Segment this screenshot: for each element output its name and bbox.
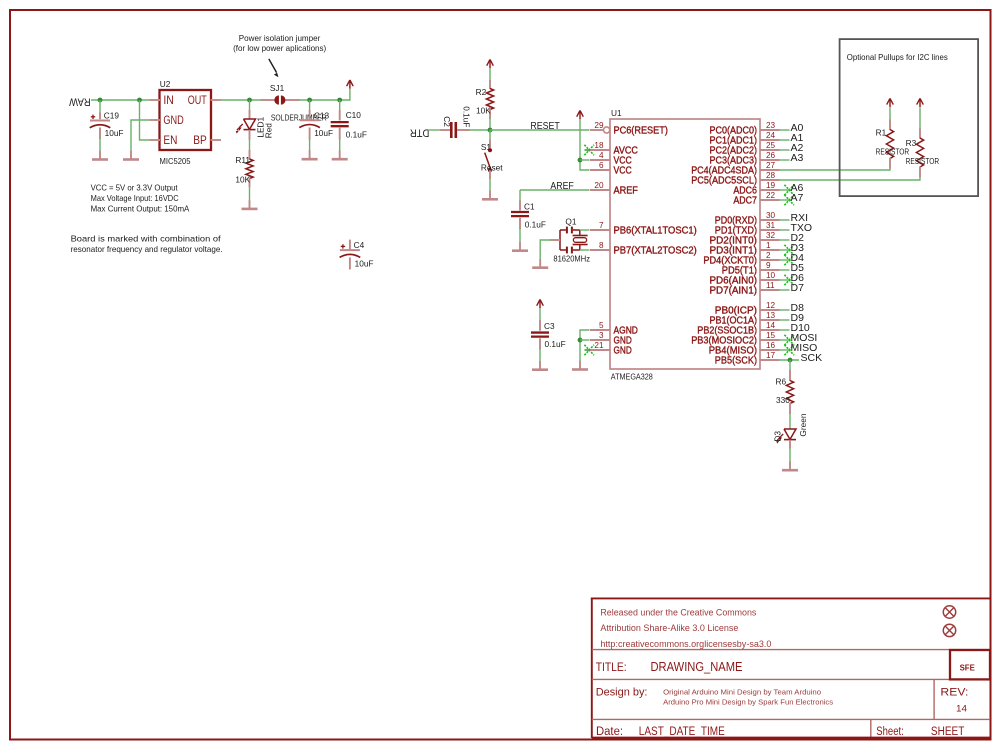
switch S1 bottom contact <box>488 168 492 172</box>
wire Q1 to XTAL2 pin 8 <box>580 249 590 251</box>
U1 right pin 1 PD3(INT1) stub <box>760 249 780 251</box>
resistor R11 zigzag <box>246 159 253 179</box>
svg-text:330: 330 <box>776 395 790 405</box>
resistor R11 top pin <box>249 150 251 160</box>
wire Q1 to XTAL1 pin 7 <box>580 229 590 231</box>
resistor R2 bottom pin <box>489 109 491 119</box>
capacitor C10 plates <box>331 121 349 123</box>
svg-text:29: 29 <box>594 121 604 130</box>
svg-text:81620MHz: 81620MHz <box>553 254 590 264</box>
svg-text:25: 25 <box>766 141 776 150</box>
svg-text:10K: 10K <box>235 175 250 185</box>
U1 pin 29 inversion bubble <box>604 127 610 133</box>
svg-text:R11: R11 <box>235 155 250 165</box>
svg-text:Power isolation jumper: Power isolation jumper <box>239 33 321 43</box>
svg-text:Date:: Date: <box>596 726 623 738</box>
U2 pin BP stub <box>211 139 222 141</box>
wire U2 OUT to SJ1 <box>221 99 261 101</box>
resistor R6 bottom pin <box>789 403 791 414</box>
svg-text:Reset: Reset <box>481 162 503 172</box>
svg-text:AREF: AREF <box>614 186 638 197</box>
LED3 top pin <box>789 429 791 430</box>
U1 right pin 32 PD2(INT0) stub <box>760 239 780 241</box>
svg-text:SCK: SCK <box>801 352 823 364</box>
svg-text:resonator frequency and regula: resonator frequency and regulator voltag… <box>71 244 223 254</box>
U1 right pin 13 PB1(OC1A) stub <box>760 319 780 321</box>
svg-text:7: 7 <box>599 221 604 230</box>
wire to VCC pin 4 <box>580 159 590 161</box>
svg-text:PB7(XTAL2TOSC2): PB7(XTAL2TOSC2) <box>614 246 697 257</box>
svg-text:9: 9 <box>766 261 771 270</box>
svg-text:0.1uF: 0.1uF <box>346 129 367 139</box>
U1 left pin 21 GND stub <box>590 349 610 351</box>
svg-text:5: 5 <box>599 321 604 330</box>
capacitor C13 top pin <box>309 100 311 111</box>
SFE logo box <box>950 650 990 679</box>
no-connect X at D6 <box>784 275 794 285</box>
no-connect X at D4 <box>784 255 794 265</box>
svg-text:14: 14 <box>766 321 776 330</box>
resistor R3 zigzag <box>916 138 923 167</box>
voltage regulator U2 box <box>160 90 212 150</box>
svg-text:Max Current Output: 150mA: Max Current Output: 150mA <box>91 204 190 214</box>
svg-text:C1: C1 <box>524 202 535 212</box>
U1 right pin 15 PB3(MOSIOC2) stub <box>760 339 780 341</box>
svg-text:10: 10 <box>766 271 776 280</box>
capacitor C2 plates <box>450 122 453 138</box>
capacitor C19 bottom pin <box>99 128 101 140</box>
svg-text:LAST_DATE_TIME: LAST_DATE_TIME <box>639 726 725 738</box>
junction GND pins <box>578 338 583 343</box>
svg-text:0.1uF: 0.1uF <box>525 220 546 230</box>
svg-text:C3: C3 <box>544 321 555 331</box>
svg-text:3: 3 <box>599 331 604 340</box>
no-connect X on GND pin 21 <box>584 345 594 355</box>
svg-text:11: 11 <box>766 281 775 290</box>
VCC symbol above R3 <box>919 98 921 107</box>
svg-text:RESET: RESET <box>530 121 559 132</box>
U1 right pin 28 PC5(ADC5SCL) stub <box>760 179 780 181</box>
junction RAW / EN branch <box>137 98 142 103</box>
svg-text:27: 27 <box>766 161 776 170</box>
wire AREF to pin 20 <box>520 189 590 191</box>
svg-text:Optional Pullups for I2C lines: Optional Pullups for I2C lines <box>847 53 948 62</box>
svg-text:Design by:: Design by: <box>596 687 648 699</box>
VCC symbol above R1 <box>889 98 891 107</box>
U1 left pin 4 VCC stub <box>590 159 610 161</box>
U1 left pin 3 GND stub <box>590 339 610 341</box>
svg-text:RESISTOR: RESISTOR <box>906 156 940 166</box>
CC circle symbol 2 <box>943 624 955 636</box>
switch S1 bottom pin <box>489 170 491 179</box>
U1 left pin 29 PC6(RESET) stub <box>590 129 603 131</box>
svg-text:RAW: RAW <box>69 96 91 108</box>
title block top border <box>591 597 990 599</box>
ground below Q1 <box>539 259 541 268</box>
svg-text:GND: GND <box>163 113 184 127</box>
wire Q1 tap to ground <box>540 240 551 260</box>
svg-text:VCC: VCC <box>614 166 632 177</box>
IC U1 body <box>610 119 760 369</box>
svg-text:28: 28 <box>766 171 776 180</box>
capacitor C13 polarized symbol <box>300 119 320 121</box>
svg-text:31: 31 <box>766 221 776 230</box>
svg-text:PB6(XTAL1TOSC1): PB6(XTAL1TOSC1) <box>614 226 697 237</box>
svg-text:TITLE:: TITLE: <box>596 660 627 674</box>
title block row line below TITLE <box>592 678 950 680</box>
U2 pin GND stub <box>150 119 161 121</box>
svg-text:SJ1: SJ1 <box>270 83 285 93</box>
capacitor C1 bottom pin <box>519 218 521 229</box>
wire SCK to R6 <box>789 360 791 371</box>
title block row line above TITLE <box>592 649 990 651</box>
junction VCC pins <box>578 158 583 163</box>
svg-text:14: 14 <box>956 704 967 714</box>
svg-text:A3: A3 <box>791 152 804 164</box>
no-connect X at A6 <box>784 185 794 195</box>
switch S1 top pin <box>489 130 491 140</box>
svg-text:23: 23 <box>766 121 776 130</box>
svg-text:19: 19 <box>766 181 776 190</box>
junction RAW / C19 <box>98 98 103 103</box>
wire to net A2 <box>780 149 790 151</box>
svg-text:Sheet:: Sheet: <box>876 726 904 738</box>
wire stub at AVCC <box>585 149 599 151</box>
no-connect X at MOSI <box>784 335 794 345</box>
svg-text:8: 8 <box>599 241 604 250</box>
ground below R11 <box>249 200 251 209</box>
svg-text:22: 22 <box>766 191 776 200</box>
wire AGND/GND pins to ground <box>580 330 590 361</box>
resistor R3 top pin <box>919 129 921 139</box>
svg-text:Released under the Creative Co: Released under the Creative Commons <box>600 608 756 618</box>
wire SCL pin 28 to R3 <box>780 177 921 180</box>
wire C3 to ground <box>539 349 541 362</box>
svg-text:EN: EN <box>163 133 177 147</box>
VCC symbol above SJ1 rail <box>349 80 351 89</box>
svg-text:4: 4 <box>599 151 604 160</box>
wire VCC to R3 <box>919 108 921 130</box>
wire to net A7 <box>780 199 790 201</box>
svg-text:15: 15 <box>766 331 776 340</box>
wire VCC to C3 <box>539 309 541 322</box>
junction C13 <box>307 98 312 103</box>
svg-text:D3: D3 <box>772 431 782 442</box>
svg-text:Red: Red <box>263 123 273 139</box>
resistor R6 zigzag <box>786 381 793 404</box>
U1 right pin 2 PD4(XCKT0) stub <box>760 259 780 261</box>
U1 left pin 20 AREF stub <box>590 189 610 191</box>
wire to net MOSI <box>780 339 790 341</box>
svg-text:C4: C4 <box>354 240 365 250</box>
svg-text:IN: IN <box>163 93 174 107</box>
svg-text:ADC7: ADC7 <box>733 196 757 207</box>
wire DTR to C2 <box>428 129 441 131</box>
svg-text:SHEET: SHEET <box>931 726 965 738</box>
capacitor C10 top pin <box>339 100 341 111</box>
junction OUT / LED1 branch <box>247 98 252 103</box>
svg-text:Original Arduino Mini Design b: Original Arduino Mini Design by Team Ard… <box>663 687 821 696</box>
svg-text:R3: R3 <box>906 138 917 148</box>
solder jumper SJ1 left pad <box>274 95 279 104</box>
wire C19 to ground <box>99 138 101 151</box>
SJ1 left pin <box>261 99 275 101</box>
wire RAW to EN pin <box>140 100 150 140</box>
resistor R1 zigzag <box>886 130 893 159</box>
LED LED3 (Green) <box>784 429 796 439</box>
svg-text:Arduino Pro Mini Design by Spa: Arduino Pro Mini Design by Spark Fun Ele… <box>663 698 833 707</box>
title block Sheet column line <box>870 719 872 737</box>
no-connect X at D3 <box>784 245 794 255</box>
U1 right pin 25 PC2(ADC2) stub <box>760 149 780 151</box>
U1 right pin 22 ADC7 stub <box>760 199 780 201</box>
LED1 bottom pin <box>249 130 251 140</box>
wire LED3 to ground <box>789 448 791 463</box>
U2 pin IN stub <box>150 99 161 101</box>
svg-text:A7: A7 <box>791 192 804 204</box>
svg-text:SFE: SFE <box>960 662 976 672</box>
U1 right pin 11 PD7(AIN1) stub <box>760 289 780 291</box>
wire AREF down to C1 <box>519 190 521 202</box>
U1 right pin 14 PB2(SSOC1B) stub <box>760 329 780 331</box>
U1 left pin 8 PB7(XTAL2TOSC2) stub <box>590 249 610 251</box>
U1 right pin 10 PD6(AIN0) stub <box>760 279 780 281</box>
ground below C13 <box>309 151 311 160</box>
svg-text:10K: 10K <box>476 106 491 116</box>
U1 left pin 6 VCC stub <box>590 169 610 171</box>
wire SCK pin <box>780 359 800 361</box>
U1 right pin 31 PD1(TXD) stub <box>760 229 780 231</box>
svg-text:10uF: 10uF <box>355 258 374 268</box>
capacitor C2 left pin <box>440 129 450 131</box>
ground below C3 <box>539 361 541 370</box>
wire R6 to LED3 <box>789 413 791 430</box>
junction SCK / R6 <box>788 358 793 363</box>
svg-text:0.1uF: 0.1uF <box>545 339 566 349</box>
svg-text:18: 18 <box>594 141 604 150</box>
solder jumper SJ1 right pad <box>281 95 286 104</box>
wire C10 to ground <box>339 139 341 152</box>
svg-text:R1: R1 <box>876 127 887 137</box>
U1 right pin 30 PD0(RXD) stub <box>760 219 780 221</box>
svg-text:C13: C13 <box>314 111 330 121</box>
wire to net D3 <box>780 249 790 251</box>
capacitor C4 polarized symbol <box>340 249 360 251</box>
svg-text:U2: U2 <box>160 79 171 89</box>
U1 right pin 9 PD5(T1) stub <box>760 269 780 271</box>
junction RESET net <box>488 128 493 133</box>
U1 right pin 23 PC0(ADC0) stub <box>760 129 780 131</box>
svg-text:http:creativecommons.orglicens: http:creativecommons.orglicensesby-sa3.0 <box>600 639 771 649</box>
wire LED1 to R11 <box>249 139 251 152</box>
svg-text:PC6(RESET): PC6(RESET) <box>614 126 668 137</box>
wire S1 to ground <box>489 179 491 192</box>
svg-text:(for low power aplications): (for low power aplications) <box>233 43 326 53</box>
capacitor C1 top pin <box>519 201 521 211</box>
U2 pin OUT stub <box>211 99 222 101</box>
wire RAW rail to U2 IN <box>91 99 150 101</box>
wire stub at GND 21 <box>585 349 599 351</box>
capacitor C3 top pin <box>539 320 541 331</box>
junction C10 <box>337 98 342 103</box>
VCC symbol above R2 <box>489 60 491 69</box>
svg-text:C10: C10 <box>346 110 362 120</box>
capacitor C10 bottom pin <box>339 128 341 140</box>
capacitor C13 bottom pin <box>309 128 311 140</box>
wire C1 to ground <box>519 228 521 243</box>
U1 right pin 12 PB0(ICP) stub <box>760 309 780 311</box>
LED3 bottom pin <box>789 440 791 449</box>
ground below S1 <box>489 191 491 200</box>
wire to net D6 <box>780 279 790 281</box>
I2C pullups box outline <box>840 39 979 196</box>
CC circle symbol 1 <box>943 606 955 618</box>
title block row line above Date <box>592 718 990 720</box>
VCC symbol above U1 <box>579 111 581 120</box>
no-connect X on AVCC pin 18 <box>584 145 594 155</box>
resonator Q1 crystal element <box>573 235 588 237</box>
svg-text:C19: C19 <box>104 110 120 120</box>
svg-text:DTR: DTR <box>410 127 430 139</box>
svg-text:VCC = 5V or 3.3V Output: VCC = 5V or 3.3V Output <box>91 182 179 192</box>
wire R11 to ground <box>249 186 251 201</box>
U1 left pin 7 PB6(XTAL1TOSC1) stub <box>590 229 610 231</box>
resonator Q1 left vertical <box>559 230 561 250</box>
svg-text:MIC5205: MIC5205 <box>160 156 191 166</box>
svg-text:RESISTOR: RESISTOR <box>876 147 910 157</box>
svg-text:U1: U1 <box>611 108 622 118</box>
resistor R1 top pin <box>889 120 891 131</box>
svg-text:20: 20 <box>594 181 604 190</box>
svg-text:R2: R2 <box>476 87 487 97</box>
svg-text:Attribution Share-Alike 3.0 Li: Attribution Share-Alike 3.0 License <box>600 623 738 633</box>
capacitor C19 pins <box>99 100 101 114</box>
svg-text:Max Voltage Input: 16VDC: Max Voltage Input: 16VDC <box>91 193 179 203</box>
capacitor C3 bottom pin <box>539 338 541 349</box>
wire to net D9 <box>780 319 790 321</box>
svg-text:24: 24 <box>766 131 776 140</box>
svg-text:30: 30 <box>766 211 776 220</box>
wire to net D8 <box>780 309 790 311</box>
svg-text:Q1: Q1 <box>565 216 576 226</box>
U1 right pin 27 PC4(ADC4SDA) stub <box>760 169 780 171</box>
svg-text:Board is marked with combinati: Board is marked with combination of <box>71 233 222 243</box>
title block left border <box>591 598 593 738</box>
svg-text:2: 2 <box>766 251 771 260</box>
resonator Q1 top branch <box>560 229 566 231</box>
wire to net D5 <box>780 269 790 271</box>
wire RESET to pin 29 <box>490 129 590 131</box>
resistor R3 bottom pin <box>919 167 921 178</box>
VCC symbol above C3 <box>539 300 541 309</box>
resistor R2 zigzag <box>486 89 493 110</box>
wire to net A6 <box>780 189 790 191</box>
wire C2 to RESET junction <box>469 129 491 131</box>
svg-text:R6: R6 <box>776 377 787 387</box>
wire to net D2 <box>780 239 790 241</box>
LED LED1 (Red) <box>244 119 256 129</box>
resonator Q1 bottom branch <box>560 249 566 251</box>
U2 pin EN stub <box>150 139 161 141</box>
ground below U1 GND <box>579 361 581 370</box>
svg-text:13: 13 <box>766 311 776 320</box>
svg-text:REV:: REV: <box>940 687 968 699</box>
svg-text:32: 32 <box>766 231 776 240</box>
svg-text:PD7(AIN1): PD7(AIN1) <box>710 286 758 297</box>
svg-text:ATMEGA328: ATMEGA328 <box>611 371 653 381</box>
U1 left pin 5 AGND stub <box>590 329 610 331</box>
wire VCC to U1 VCC pins <box>580 120 590 171</box>
capacitor C1 plates <box>511 211 529 213</box>
capacitor C3 plates <box>531 331 549 333</box>
ground below LED3 <box>789 462 791 471</box>
svg-text:DRAWING_NAME: DRAWING_NAME <box>651 660 743 674</box>
wire to net A0 <box>780 129 790 131</box>
capacitor C2 right pin <box>457 129 470 131</box>
svg-text:PB5(SCK): PB5(SCK) <box>715 356 757 367</box>
ground below C1 <box>519 242 521 251</box>
wire to GND pin 3 <box>580 339 590 341</box>
resonator Q1 center tap <box>550 239 560 241</box>
U1 right pin 26 PC3(ADC3) stub <box>760 159 780 161</box>
wire to net D4 <box>780 259 790 261</box>
capacitor C4 top pin <box>349 240 351 250</box>
ground below C10 <box>339 151 341 160</box>
wire to net A1 <box>780 139 790 141</box>
svg-text:C2: C2 <box>442 116 452 127</box>
svg-text:26: 26 <box>766 151 776 160</box>
svg-text:21: 21 <box>594 341 604 350</box>
U1 right pin 24 PC1(ADC1) stub <box>760 139 780 141</box>
svg-text:D7: D7 <box>791 282 805 294</box>
ground below U2 GND <box>130 151 132 160</box>
capacitor C4 bottom pin <box>349 257 351 269</box>
svg-text:0.1uF: 0.1uF <box>461 106 471 127</box>
annotation arrow to SJ1 <box>269 59 277 73</box>
capacitor C19 polarized symbol <box>90 120 110 122</box>
LED1 top pin <box>249 100 251 111</box>
wire to net TXO <box>780 229 790 231</box>
svg-text:10uF: 10uF <box>314 128 333 138</box>
svg-text:BP: BP <box>193 133 207 147</box>
wire to net D10 <box>780 329 790 331</box>
svg-text:12: 12 <box>766 301 776 310</box>
wire SJ1 to VCC <box>299 89 350 100</box>
wire R2 to RESET net <box>489 118 491 130</box>
svg-text:1: 1 <box>766 241 771 250</box>
wire C13 to ground <box>309 139 311 152</box>
wire to net D7 <box>780 289 790 291</box>
wire VCC to R2 <box>489 69 491 82</box>
svg-text:GND: GND <box>614 346 632 357</box>
svg-text:S1: S1 <box>481 142 492 152</box>
svg-text:Green: Green <box>798 413 808 436</box>
U1 right pin 19 ADC6 stub <box>760 189 780 191</box>
no-connect X at A7 <box>784 195 794 205</box>
switch S1 top contact <box>488 148 492 152</box>
no-connect X at MISO <box>784 345 794 355</box>
wire U2 GND to ground <box>131 120 150 151</box>
resistor R6 top pin <box>789 370 791 381</box>
wire VCC to R1 <box>889 108 891 121</box>
resistor R2 top pin <box>489 80 491 89</box>
wire to net A3 <box>780 159 790 161</box>
svg-text:6: 6 <box>599 161 604 170</box>
wire SDA pin 27 to R1 <box>780 168 891 170</box>
U1 right pin 16 PB4(MISO) stub <box>760 349 780 351</box>
SJ1 right pin <box>286 99 300 101</box>
title block bottom border <box>592 737 990 740</box>
